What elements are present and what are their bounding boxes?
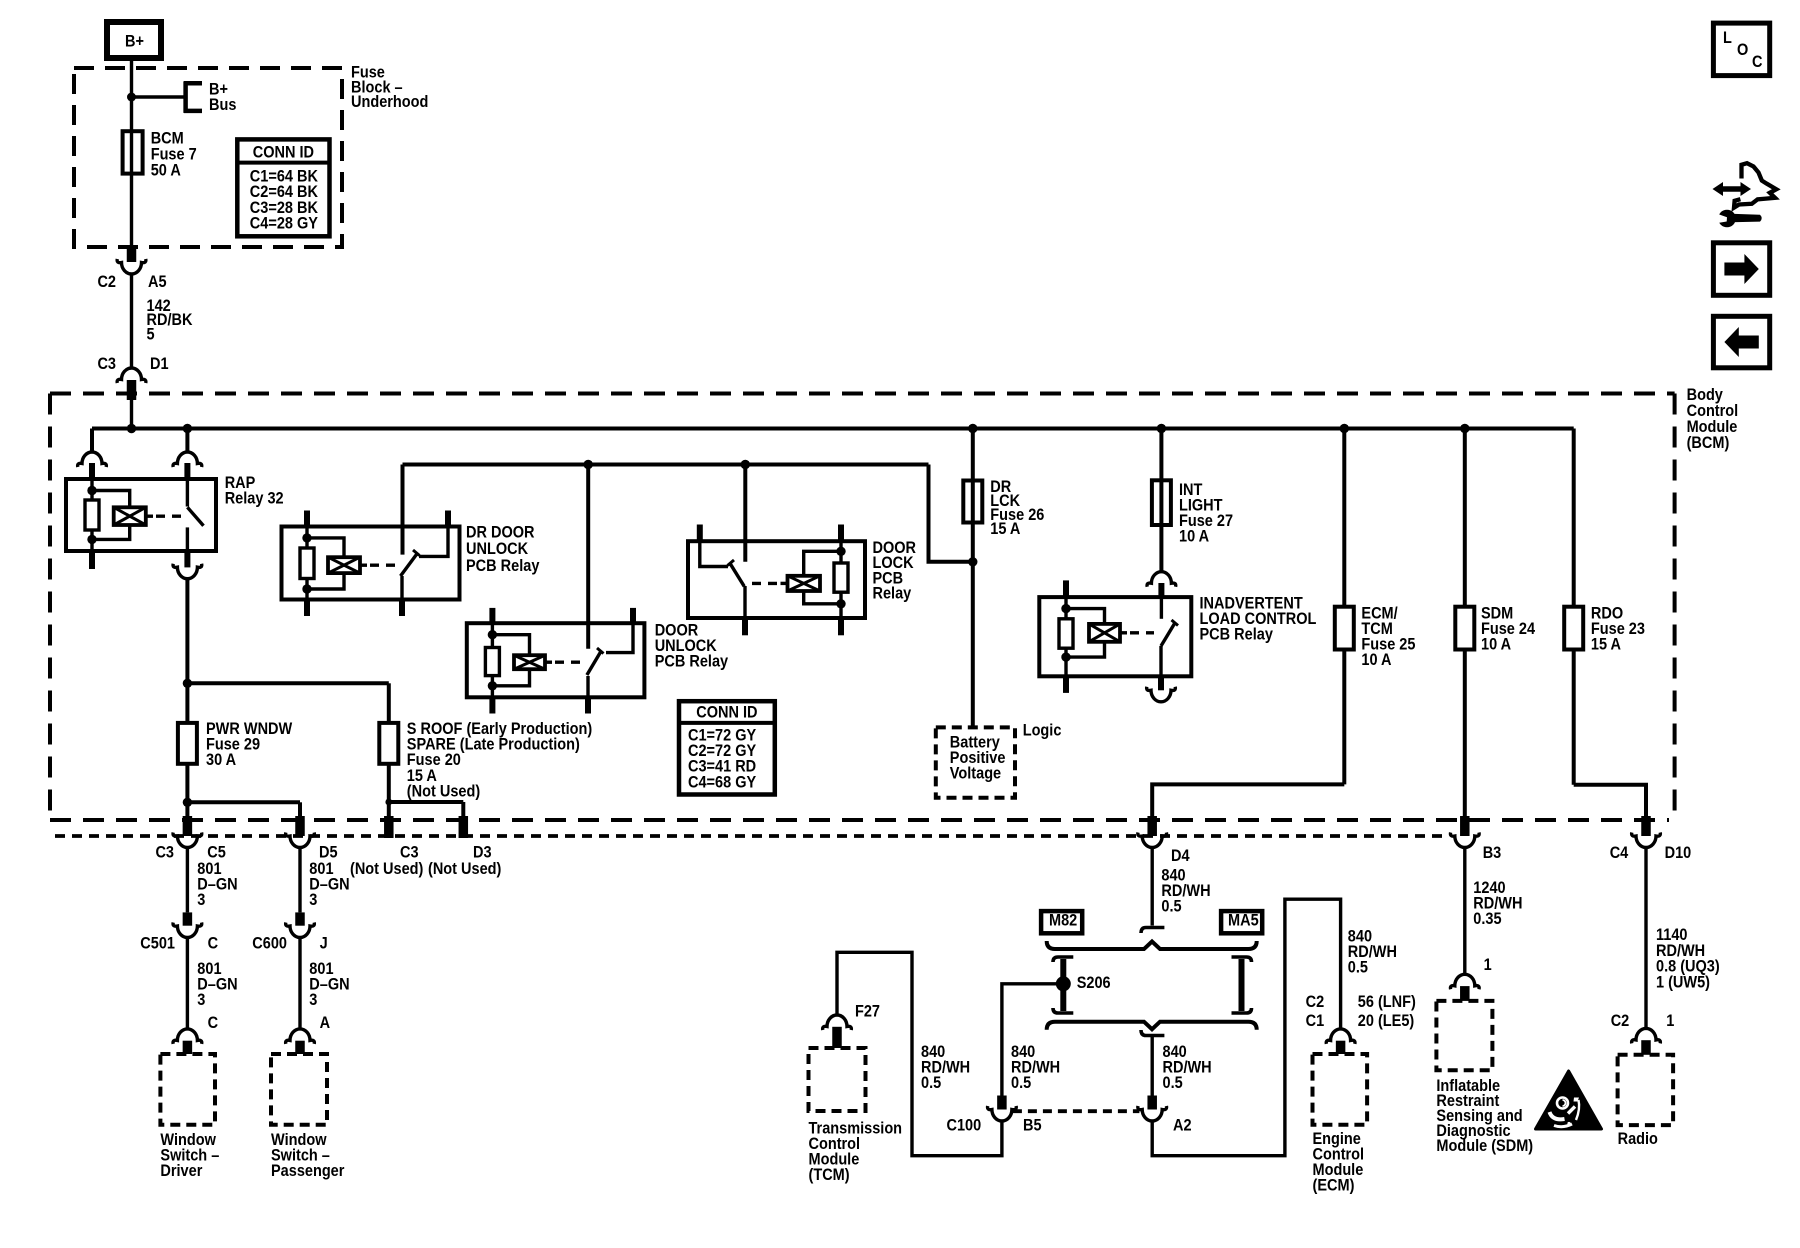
- svg-text:C1: C1: [1306, 1012, 1325, 1030]
- DOOR UNLOCK relay coil: [492, 635, 552, 686]
- svg-text:C3: C3: [400, 844, 419, 862]
- fuse BCM Fuse 7 50 A: [123, 130, 197, 180]
- wire RAP output to fuses 29/20: [183, 579, 389, 723]
- svg-text:UNLOCK: UNLOCK: [466, 540, 529, 558]
- power symbol B+: [107, 22, 161, 58]
- DR DOOR UNLOCK relay coil: [307, 538, 367, 589]
- connector D3 not used stub: [428, 816, 501, 878]
- INADVERTENT relay switch output terminal: [1147, 676, 1176, 702]
- svg-text:M82: M82: [1049, 912, 1078, 930]
- svg-text:(BCM): (BCM): [1687, 434, 1730, 452]
- relay INADVERTENT LOAD CONTROL PCB Relay: [1039, 595, 1317, 677]
- svg-text:0.5: 0.5: [1161, 898, 1182, 916]
- svg-text:C4: C4: [1610, 844, 1629, 862]
- connector separation line (dotted): [55, 834, 1445, 838]
- wire fuse 7 to connector: [130, 174, 133, 248]
- svg-text:C2: C2: [1306, 993, 1325, 1011]
- svg-text:J: J: [320, 935, 328, 953]
- DOOR UNLOCK relay coil pins: [489, 608, 495, 714]
- svg-text:C4=28 GY: C4=28 GY: [250, 215, 319, 233]
- in-line connector lower half: [1141, 1030, 1164, 1036]
- svg-text:3: 3: [309, 891, 317, 909]
- svg-text:Bus: Bus: [209, 96, 236, 114]
- module Transmission Control Module (TCM): [809, 1048, 903, 1184]
- connector C4 pin D10 (BCM): [1610, 816, 1692, 862]
- wire Fuse 23 to connector D10: [1574, 650, 1646, 818]
- wire A2 to ECM: [1152, 899, 1397, 1155]
- svg-text:15 A: 15 A: [990, 520, 1020, 538]
- CONN ID table (fuse block connectors): [237, 139, 329, 236]
- svg-text:A: A: [320, 1014, 330, 1032]
- svg-text:B5: B5: [1023, 1117, 1042, 1135]
- svg-text:50 A: 50 A: [151, 161, 181, 179]
- svg-text:Radio: Radio: [1618, 1130, 1658, 1148]
- svg-text:Logic: Logic: [1023, 722, 1062, 740]
- svg-text:A5: A5: [148, 273, 167, 291]
- connector C100 pin A2: [1138, 1096, 1192, 1135]
- fuse block - underhood (dashed box): [74, 64, 428, 247]
- wire 1140 RD/WH to Radio: [1646, 848, 1720, 1029]
- svg-text:3: 3: [197, 991, 205, 1009]
- svg-text:B3: B3: [1483, 844, 1502, 862]
- icon arrow previous (left): [1713, 316, 1769, 368]
- svg-text:(ECM): (ECM): [1313, 1177, 1355, 1195]
- svg-text:Voltage: Voltage: [950, 764, 1002, 782]
- wire door-lock relay feed bus from Fuse 26: [403, 460, 978, 567]
- svg-text:5: 5: [147, 326, 155, 344]
- svg-text:O: O: [1737, 41, 1748, 59]
- svg-text:C4=68 GY: C4=68 GY: [688, 773, 757, 791]
- DOOR UNLOCK relay dashed link: [555, 661, 581, 664]
- svg-text:1: 1: [1666, 1012, 1674, 1030]
- harness brace bottom: [1047, 1022, 1257, 1030]
- connector pin A (passenger switch): [286, 1014, 330, 1054]
- fuse INT LIGHT Fuse 27 10 A: [1152, 429, 1233, 572]
- wire B+ feed into fuse block: [130, 58, 133, 131]
- RAP relay switch output terminal: [173, 551, 202, 579]
- DOOR LOCK relay fixed contact from pin: [700, 525, 728, 567]
- connector C3 pin D5 (BCM): [286, 816, 338, 862]
- svg-text:S206: S206: [1077, 974, 1111, 992]
- connector C3 pin D1: [97, 355, 168, 400]
- wire 1240 RD/WH 0.35 to SDM: [1465, 848, 1523, 975]
- bus bar B+ Bus: [127, 81, 236, 115]
- connector C3 pin C5 (BCM): [155, 816, 226, 862]
- svg-text:0.35: 0.35: [1473, 910, 1502, 928]
- svg-text:C2: C2: [1611, 1012, 1630, 1030]
- svg-text:Underhood: Underhood: [351, 93, 428, 111]
- svg-text:3: 3: [197, 891, 205, 909]
- svg-text:10 A: 10 A: [1481, 636, 1511, 654]
- DOOR LOCK relay dashed link: [752, 582, 778, 585]
- svg-text:CONN ID: CONN ID: [253, 143, 314, 161]
- wire 142 RD/BK 5: [132, 274, 194, 368]
- RAP relay coil: [92, 491, 153, 540]
- svg-text:C100: C100: [947, 1117, 982, 1135]
- svg-text:(Not Used): (Not Used): [350, 860, 423, 878]
- svg-text:D5: D5: [319, 844, 338, 862]
- RAP relay coil pin terminal (socket arc): [78, 429, 107, 480]
- svg-text:PCB Relay: PCB Relay: [655, 653, 729, 671]
- svg-text:C3: C3: [155, 844, 174, 862]
- svg-text:B+: B+: [125, 33, 144, 51]
- connector C2 pin B3 (BCM): [1450, 816, 1501, 862]
- wire S206 splice branch to B5: [1002, 984, 1060, 1096]
- svg-text:Driver: Driver: [160, 1162, 202, 1180]
- svg-text:D4: D4: [1171, 847, 1190, 865]
- DR DOOR UNLOCK relay switch: [401, 465, 420, 617]
- module box Body Control Module (BCM): [50, 386, 1738, 820]
- wire 801 D-GN 3 (driver): [187, 848, 237, 913]
- wire Fuse 25 to connector D4: [1152, 650, 1344, 818]
- wire Fuse 26 output to logic: [971, 562, 975, 728]
- svg-text:(Not Used): (Not Used): [428, 860, 501, 878]
- fuse S ROOF / SPARE Fuse 20 15 A (not used): [379, 720, 592, 800]
- module Window Switch - Driver: [160, 1054, 219, 1180]
- relay DOOR LOCK PCB Relay: [688, 539, 916, 618]
- DOOR LOCK relay coil resistor: [834, 525, 848, 636]
- relay DOOR UNLOCK PCB Relay: [467, 622, 729, 698]
- icon LOC reference box: [1713, 23, 1769, 76]
- svg-text:PCB Relay: PCB Relay: [466, 557, 540, 575]
- RAP relay coil-to-contact dashed link: [156, 515, 182, 518]
- INADVERTENT relay coil: [1066, 609, 1127, 658]
- svg-text:C600: C600: [252, 935, 287, 953]
- harness brace top: [1047, 941, 1257, 949]
- wire D1 to internal bus: [130, 399, 133, 429]
- svg-text:DR DOOR: DR DOOR: [466, 524, 535, 542]
- INADVERTENT relay switch: [1147, 572, 1178, 677]
- DOOR LOCK relay switch: [728, 465, 746, 636]
- module Radio: [1618, 1055, 1674, 1148]
- module Window Switch - Passenger: [271, 1054, 344, 1180]
- connector pin 1 at SDM: [1450, 956, 1492, 1001]
- connector pin C (driver switch): [173, 1014, 218, 1054]
- wire 801 D-GN 3 to passenger switch: [300, 938, 350, 1029]
- CONN ID table (BCM connectors): [679, 701, 775, 794]
- connector C100 plane (dashed): [947, 1111, 1140, 1135]
- svg-text:15 A: 15 A: [1591, 636, 1621, 654]
- svg-text:Passenger: Passenger: [271, 1162, 344, 1180]
- svg-text:3: 3: [309, 991, 317, 1009]
- label Logic: [1023, 722, 1062, 740]
- svg-text:D3: D3: [473, 844, 492, 862]
- svg-text:Relay: Relay: [873, 585, 912, 603]
- module Inflatable Restraint Sensing and Diagnostic Module (SDM): [1436, 1001, 1533, 1155]
- svg-text:30 A: 30 A: [206, 751, 236, 769]
- svg-text:0.5: 0.5: [1163, 1074, 1184, 1092]
- wire 840 RD/WH 0.5 from D4: [1152, 848, 1210, 926]
- svg-text:Relay 32: Relay 32: [225, 489, 284, 507]
- wire 801 D-GN 3 to driver switch: [187, 938, 237, 1029]
- DR DOOR UNLOCK relay coil pins: [304, 511, 310, 617]
- RAP relay bottom coil pin (stub): [89, 551, 95, 569]
- RAP relay switch contact: [173, 429, 203, 552]
- wire B5 to TCM F27: [837, 952, 1002, 1155]
- svg-text:(Not Used): (Not Used): [407, 783, 480, 801]
- svg-text:0.5: 0.5: [1348, 959, 1369, 977]
- svg-text:C3: C3: [97, 355, 116, 373]
- svg-text:C: C: [1752, 53, 1762, 71]
- svg-text:C: C: [208, 1014, 218, 1032]
- svg-text:0.5: 0.5: [921, 1074, 942, 1092]
- connector C3 not used stub: [350, 816, 423, 878]
- main B+ bus inside BCM: [92, 424, 1574, 433]
- wire 840 RD/WH 0.5 to A2: [1152, 1036, 1211, 1096]
- svg-text:C: C: [208, 935, 218, 953]
- svg-text:C2: C2: [97, 273, 116, 291]
- icon arrow next (right): [1713, 243, 1769, 295]
- connector C3 pin D4 (BCM): [1138, 816, 1190, 865]
- connector C501 pin C: [140, 912, 218, 952]
- in-line harness connector MA5 half: [1221, 911, 1262, 933]
- svg-text:0.5: 0.5: [1011, 1074, 1032, 1092]
- DOOR UNLOCK relay switch: [587, 465, 604, 714]
- wire Fuse 24 to connector B3: [1463, 650, 1467, 818]
- svg-text:C501: C501: [140, 935, 175, 953]
- DOOR UNLOCK relay fixed contact from pin: [606, 608, 633, 653]
- svg-text:(TCM): (TCM): [809, 1166, 850, 1184]
- svg-text:D10: D10: [1665, 844, 1692, 862]
- svg-text:A2: A2: [1173, 1117, 1192, 1135]
- node Battery Positive Voltage: [936, 727, 1015, 797]
- module Engine Control Module (ECM): [1313, 1054, 1368, 1195]
- fuse SDM Fuse 24 10 A: [1455, 429, 1535, 654]
- svg-text:D1: D1: [150, 355, 169, 373]
- svg-text:C5: C5: [207, 844, 226, 862]
- RAP relay coil resistor branch: [85, 479, 99, 551]
- fuse PWR WNDW Fuse 29 30 A: [178, 720, 293, 769]
- svg-text:1: 1: [1484, 956, 1492, 974]
- icon service-manual hand with wrench: [1713, 163, 1777, 227]
- DR DOOR UNLOCK relay fixed contact from pin: [419, 511, 448, 557]
- connector C100 pin B5: [988, 1096, 1042, 1135]
- relay DR DOOR UNLOCK PCB Relay: [282, 524, 540, 600]
- connector pins C2/C1 56(LNF) 20(LE5) at ECM: [1306, 993, 1416, 1054]
- wire fuse 20 stubs C3/D3: [385, 764, 463, 817]
- connector C2 pin A5: [97, 247, 166, 291]
- connector C2 pin 1 at Radio: [1611, 1012, 1675, 1055]
- fuse DR LCK Fuse 26 15 A: [963, 429, 1044, 562]
- fuse RDO Fuse 23 15 A: [1564, 429, 1645, 654]
- DOOR LOCK relay coil: [781, 551, 842, 604]
- SRS caution triangle: [1536, 1071, 1602, 1129]
- in-line harness connector M82 half: [1041, 911, 1164, 933]
- connector pass-through pin with splice S206: [1053, 957, 1111, 1013]
- svg-text:CONN ID: CONN ID: [696, 704, 757, 722]
- fuse ECM/TCM Fuse 25 10 A: [1335, 429, 1416, 670]
- svg-text:10 A: 10 A: [1361, 651, 1391, 669]
- connector pass-through pin (right): [1232, 957, 1252, 1013]
- connector C600 pin J: [252, 912, 327, 952]
- DR DOOR UNLOCK relay dashed link: [370, 564, 396, 567]
- wire 801 D-GN 3 (passenger): [300, 848, 350, 913]
- INADVERTENT relay dashed link: [1130, 631, 1154, 634]
- svg-text:MA5: MA5: [1228, 912, 1259, 930]
- svg-text:PCB Relay: PCB Relay: [1200, 625, 1274, 643]
- svg-text:10 A: 10 A: [1179, 528, 1209, 546]
- svg-text:20 (LE5): 20 (LE5): [1358, 1012, 1414, 1030]
- svg-text:F27: F27: [855, 1003, 880, 1021]
- svg-text:56 (LNF): 56 (LNF): [1358, 993, 1416, 1011]
- connector pin F27 at TCM: [823, 1003, 880, 1048]
- svg-text:L: L: [1723, 29, 1732, 47]
- relay RAP Relay 32: [66, 474, 284, 551]
- DR DOOR UNLOCK relay coil resistor: [300, 527, 314, 600]
- INADVERTENT relay coil resistor: [1059, 597, 1073, 676]
- DOOR UNLOCK relay coil resistor: [485, 623, 499, 697]
- INADVERTENT relay coil pins: [1063, 580, 1069, 693]
- svg-text:1 (UW5): 1 (UW5): [1656, 974, 1710, 992]
- svg-text:Module (SDM): Module (SDM): [1436, 1137, 1533, 1155]
- wire fuse 29 to connectors C5/D5: [183, 764, 300, 817]
